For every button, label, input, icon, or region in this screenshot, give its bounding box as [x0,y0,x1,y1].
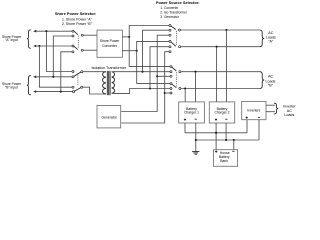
selector A pole2 throws [169,40,171,42]
shore selector pole1 arm [74,31,78,35]
wire: inverter AC hot [266,104,275,106]
box: Shore Power Converter [97,30,122,57]
wire: riser charger1 input right [195,72,197,102]
wire: riser charger2 input right [225,30,227,102]
selector B pole1 arm [172,67,177,71]
shore selector gang link poles 1-2 [77,36,79,49]
wire: secondary neutral jog [112,89,171,94]
box: Battery Charger 1 [179,102,205,123]
junction on B hot [52,76,54,78]
svg-text:AC: AC [268,75,273,79]
wire: AC loads B hot bus [181,71,259,73]
wire: shore A hot input [34,30,73,32]
wire: inverter positive to bus [246,120,248,133]
shore selector gang link poles 3-4 [77,73,79,86]
wire: riser charger1 input left [184,89,186,102]
svg-text:1. Shore Power “A”: 1. Shore Power “A” [62,17,93,21]
junction battery negative [233,139,235,141]
junction AC A hot to charger 2 [225,29,227,31]
box: Inverters [242,101,266,119]
svg-text:Shore Power Selector:: Shore Power Selector: [55,11,97,16]
junction on A hot [45,30,47,32]
svg-text:Charger 2: Charger 2 [214,110,229,114]
wire: converter neutral riser [137,41,170,83]
label: AC Loads A [266,31,276,44]
wire: converter hot riser [129,26,170,67]
svg-text:Charger 1: Charger 1 [184,110,199,114]
selector B gang link [176,72,178,87]
wire: generator neutral to selector B [165,92,171,94]
selector B pole2 common [179,88,181,90]
wire: AC loads B neutral bus [181,88,259,90]
brace: AC Loads B [260,72,265,89]
wire: pole4 common to transformer primary bottom [83,87,106,94]
wire: converter hot to selector B [129,66,171,68]
wire: secondary hot riser to selector A [143,30,171,71]
shore selector pole3 arm [74,72,81,76]
junction secondary neutral [149,87,151,89]
label: Power Source Selector legend [156,0,200,19]
svg-text:Isolation Transformer: Isolation Transformer [91,66,126,70]
brace: Shore Power B input [27,76,31,95]
wire: DC positive bus [185,132,247,134]
transformer core [106,71,108,95]
junction AC B neutral to charger 1 [184,87,186,89]
wire: B neutral riser to pole2 throw b [61,52,73,92]
wire: converter hot output [122,36,129,38]
ground symbol [192,152,199,155]
label: Inverter AC Loads [283,105,296,118]
shore selector pole4 common [81,86,83,88]
shore selector pole2 arm [74,46,78,49]
transformer secondary coil [112,72,115,94]
wire: shore B hot input [34,76,73,78]
junction AC B hot to charger 1 [194,71,196,73]
svg-text:“A” Input: “A” Input [5,38,18,42]
wire: charger2 positive and battery positive riser [215,123,217,149]
svg-text:Converter: Converter [102,44,118,48]
selector B pole1 throws [170,66,172,68]
wire: pole1 common to converter [83,34,97,36]
shore selector pole4 throws [72,86,74,88]
wire: charger2 negative to bus [225,123,227,140]
wire: inverter AC neutral [266,111,275,113]
box: House Battery Bank [213,150,237,167]
wire: charger1 negative riser to ground [195,123,197,152]
svg-text:“B”: “B” [268,84,274,88]
selector A gang link [175,31,177,46]
wire: charger1 positive to bus [184,123,186,133]
svg-text:Shore Power: Shore Power [100,39,120,43]
svg-text:“B” Input: “B” Input [5,86,18,90]
svg-text:Bank: Bank [220,159,228,163]
shore selector pole1 common [81,34,83,36]
svg-text:2. Iso Transformer: 2. Iso Transformer [160,11,188,15]
wire: secondary hot to selector B [112,71,171,73]
junction on B neutral [60,91,62,93]
svg-text:Power Source Selector:: Power Source Selector: [156,0,200,5]
selector B pole2 throws [170,83,172,85]
shore selector pole2 throws [72,45,74,47]
wire: generator hot output [121,35,170,111]
brace: Inverter AC Loads [274,103,278,114]
arrow: shore B neutral [33,90,36,93]
selector A pole1 arm [171,26,176,30]
wire: generator hot to selector B [157,75,171,77]
svg-text:1. Converter: 1. Converter [160,6,179,10]
svg-text:3. Generator: 3. Generator [160,15,179,19]
svg-text:Loads: Loads [284,113,294,117]
wire: inverter negative to bus [258,120,260,140]
selector A pole2 arm [171,42,176,47]
arrow: shore B hot [33,76,36,79]
label: Shore Power A Input [2,35,22,42]
label: Shore Power B Input [2,82,22,89]
brace: AC Loads A [260,30,265,47]
wire: A neutral riser to pole4 [39,46,73,87]
junction on A neutral [38,45,40,47]
shore selector pole2 common [81,49,83,51]
svg-text:Inverters: Inverters [247,109,260,113]
shore selector pole3 common [81,71,83,73]
wire: pole2 common to converter [83,49,97,51]
junction generator hot [156,75,158,77]
svg-text:AC: AC [268,31,273,35]
svg-text:2. Shore Power “B”: 2. Shore Power “B” [62,22,93,26]
arrow: shore A neutral [33,45,36,48]
junction converter neutral [136,50,138,52]
label: AC Loads B [265,75,275,88]
wire: A hot riser to pole3 [46,31,73,71]
wire: secondary neutral riser to selector A [150,47,170,89]
wire: generator neutral output [121,52,170,123]
brace: Shore Power A input [27,30,31,49]
svg-text:Generator: Generator [101,116,117,120]
wire: converter neutral output [122,50,137,52]
wire: shore B neutral input [34,91,74,93]
wire: AC loads A neutral bus [181,46,260,48]
shore selector pole3 throws [72,71,74,73]
selector A pole2 common [179,46,181,48]
wire: B hot riser to pole1 throw b [53,36,73,77]
wire: battery negative riser [233,140,235,149]
junction secondary hot [141,71,143,73]
selector B pole1 common [179,71,181,73]
transformer primary coil [103,72,106,94]
selector A pole1 common [179,29,181,31]
junction AC A neutral to charger 2 [216,46,218,48]
junction charger2 negative [225,139,227,141]
box: Generator [97,106,121,128]
wire: shore A neutral input [34,45,73,47]
selector B pole2 arm [172,84,177,88]
box: Battery Charger 2 [209,102,234,123]
selector A pole1 throws [169,25,171,27]
arrow: shore A hot [33,30,36,33]
junction converter hot [128,36,130,38]
junction negative bus at ground riser [195,139,197,141]
shore selector pole1 throws [72,30,74,32]
junction charger2 positive / battery positive [215,132,217,134]
label: Shore Power Selector legend [55,11,97,26]
junction generator neutral [164,92,166,94]
shore selector pole4 arm [74,88,81,92]
wire: riser charger2 input left [216,47,218,102]
wire: converter neutral to selector B [137,83,171,85]
wire: DC negative bus [196,139,259,141]
wire: pole3 common to transformer primary [83,71,106,73]
wire: AC loads A hot bus [181,29,260,31]
svg-text:“A”: “A” [268,40,274,44]
